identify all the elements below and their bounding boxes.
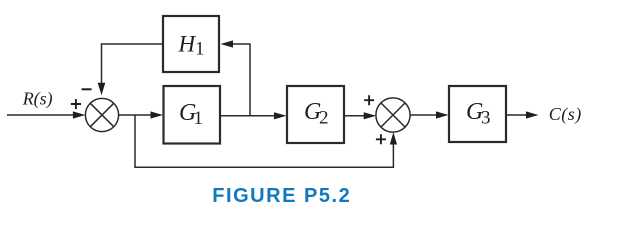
arrowhead: into S2 left xyxy=(364,112,377,119)
wire: S1 output to G1 xyxy=(119,114,152,116)
arrowhead: into G2 left xyxy=(274,112,287,119)
arrowhead: into S1 left xyxy=(73,111,86,118)
wire: S2 output to G3 xyxy=(410,114,437,116)
wire: G2 output to S2 xyxy=(344,115,365,117)
svg-text:3: 3 xyxy=(481,108,491,129)
block G3 xyxy=(449,86,506,142)
block H1 xyxy=(163,16,219,72)
svg-text:2: 2 xyxy=(319,108,329,129)
input signal label R(s) xyxy=(22,89,53,110)
block G2 xyxy=(287,86,344,143)
arrowhead: into G3 left xyxy=(436,111,449,118)
summing junction S1 xyxy=(85,98,118,131)
summing junction S2 xyxy=(376,98,410,132)
caption FIGURE P5.2 xyxy=(212,185,351,207)
svg-text:1: 1 xyxy=(195,39,205,60)
wire: H1 output to S1 top xyxy=(102,44,164,83)
svg-text:H: H xyxy=(178,31,197,56)
wire: input R(s) to summing junction S1 xyxy=(7,114,74,116)
output signal label C(s) xyxy=(549,104,582,125)
plus sign at S1 left input xyxy=(71,99,81,109)
svg-text:1: 1 xyxy=(194,108,204,129)
plus sign at S2 left input xyxy=(364,95,374,105)
wire: G1 output to G2 xyxy=(220,115,274,117)
arrowhead: into S1 top xyxy=(98,83,106,96)
arrowhead: output to C(s) xyxy=(526,111,539,118)
wire: takeoff after S1 down along bottom to S2 xyxy=(135,115,393,167)
wire: G3 output to C(s) xyxy=(506,114,527,116)
arrowhead: into H1 right xyxy=(221,40,234,47)
plus sign at S2 bottom input xyxy=(376,134,386,144)
wire: takeoff between G1 and G2 up to H1 input xyxy=(233,44,250,116)
minus sign at S1 top input xyxy=(82,88,92,90)
arrowhead: into G1 left xyxy=(151,111,164,118)
arrowhead: into S2 bottom xyxy=(390,132,397,144)
svg-text:R(s): R(s) xyxy=(22,89,53,110)
svg-text:FIGURE P5.2: FIGURE P5.2 xyxy=(212,185,351,207)
svg-text:C(s): C(s) xyxy=(549,104,582,125)
block G1 xyxy=(164,86,221,144)
